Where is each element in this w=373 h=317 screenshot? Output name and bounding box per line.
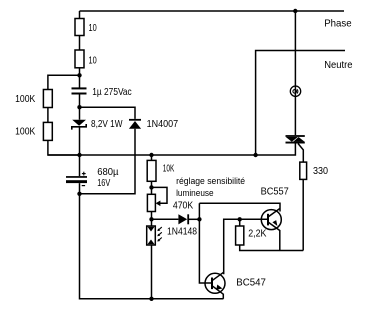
wire 10K to pot bbox=[151, 181, 153, 194]
wire top rail to R1 bbox=[79, 11, 81, 19]
wire between 100K resistors bbox=[47, 108, 49, 123]
node LDR bottom bbox=[149, 297, 153, 301]
wire between 10 resistors bbox=[79, 36, 81, 51]
wiper loop of 470K bbox=[152, 187, 168, 203]
wire 1N4148 cathode to vertical bbox=[189, 218, 199, 220]
svg-text:10K: 10K bbox=[163, 164, 175, 175]
triac gate wire bbox=[298, 144, 303, 163]
wire to 100K branch bbox=[48, 75, 80, 89]
wire zener to rail bbox=[79, 127, 81, 155]
svg-text:100K: 100K bbox=[15, 94, 35, 105]
svg-text:10: 10 bbox=[89, 23, 97, 34]
wire rail to 10K bbox=[151, 155, 153, 160]
wire 100K bottom to rail bbox=[48, 140, 80, 155]
resistor 10 (top) bbox=[75, 19, 84, 36]
node cap bottom / 1N4007 return bbox=[77, 192, 81, 196]
plus sign of 680u bbox=[82, 172, 86, 176]
resistor 10 (second) bbox=[75, 50, 84, 68]
resistor 2,2K bbox=[236, 226, 244, 245]
transistor BC557 bbox=[261, 210, 281, 230]
node B bbox=[77, 105, 81, 109]
svg-text:BC557: BC557 bbox=[261, 186, 289, 197]
svg-text:16V: 16V bbox=[97, 178, 110, 189]
wire 1N4007 bottom to cap-bottom wire bbox=[80, 129, 136, 194]
potentiometer 470K bbox=[147, 194, 155, 211]
BC547 emitter arrow (NPN, pointing out) bbox=[216, 285, 222, 290]
wire rail to 680u cap bbox=[79, 155, 81, 176]
wire 330 bottom to emitter return bbox=[302, 179, 304, 250]
node pot-1N4148-LDR bbox=[149, 217, 153, 221]
svg-text:Neutre: Neutre bbox=[324, 60, 353, 71]
svg-text:100K: 100K bbox=[15, 127, 35, 138]
wire vertical collector-base bus bbox=[199, 203, 211, 283]
node 10K-pot bbox=[149, 185, 153, 189]
capacitor 680u 16V bbox=[66, 176, 87, 183]
wire BC547 collector to BC557 base bbox=[224, 219, 268, 274]
BC547 emitter lead bbox=[222, 294, 224, 299]
node rail-neutre branch bbox=[253, 153, 257, 157]
node 1N4148 cathode bbox=[197, 217, 201, 221]
LDR photoresistor bbox=[147, 226, 156, 245]
wire 680u to bottom rail bbox=[80, 183, 224, 299]
node rail-10K bbox=[149, 153, 153, 157]
wire neutre line bbox=[256, 51, 345, 156]
wire 2,2K top lead bbox=[239, 219, 241, 226]
BC557 emitter arrow (PNP, pointing to base) bbox=[272, 220, 277, 226]
wire pot bottom to 1N4148 node bbox=[151, 212, 153, 227]
diode 1N4007 bbox=[129, 119, 141, 121]
resistor 100K (lower) bbox=[43, 122, 52, 140]
node phase-lamp junction bbox=[293, 9, 297, 13]
lamp top lead bbox=[294, 11, 296, 135]
wire cap to node B bbox=[79, 95, 81, 120]
zener diode 8,2V 1W bbox=[72, 120, 86, 126]
svg-text:10: 10 bbox=[89, 55, 97, 66]
transistor BC547 bbox=[205, 273, 225, 293]
LDR light arrows bbox=[158, 227, 162, 241]
svg-text:lumineuse: lumineuse bbox=[176, 188, 214, 199]
resistor 100K (upper) bbox=[43, 90, 52, 108]
wire main rail bbox=[48, 144, 296, 156]
node rail-zener bbox=[77, 153, 81, 157]
wire top link to BC557 collector bbox=[199, 203, 280, 211]
svg-text:8,2V 1W: 8,2V 1W bbox=[91, 119, 123, 130]
wire R2 bottom to node bbox=[79, 68, 81, 88]
wire 2,2K bottom / emitter return bbox=[240, 245, 304, 251]
wire node to 1N4148 anode bbox=[152, 218, 179, 220]
minus sign of 680u bbox=[82, 185, 85, 187]
wire top phase rail bbox=[80, 10, 345, 12]
wire node B to 1N4007 top bbox=[80, 107, 136, 119]
wiper arrowhead bbox=[156, 201, 161, 207]
wire LDR to bottom rail bbox=[151, 245, 153, 299]
lamp bbox=[290, 86, 300, 96]
svg-text:2,2K: 2,2K bbox=[248, 229, 266, 240]
triac bbox=[286, 135, 305, 143]
svg-text:470K: 470K bbox=[173, 200, 193, 211]
svg-text:1µ 275Vac: 1µ 275Vac bbox=[92, 87, 131, 98]
capacitor C1 1u 275Vac bbox=[72, 87, 87, 94]
svg-text:330: 330 bbox=[313, 166, 328, 177]
resistor 330 bbox=[300, 162, 307, 179]
svg-text:680µ: 680µ bbox=[97, 167, 118, 178]
resistor 10K bbox=[147, 160, 156, 181]
svg-text:BC547: BC547 bbox=[236, 278, 266, 289]
svg-text:Phase: Phase bbox=[324, 18, 352, 29]
svg-text:1N4148: 1N4148 bbox=[167, 226, 197, 237]
node 2,2K top bbox=[238, 217, 242, 221]
diode 1N4148 bbox=[178, 214, 187, 224]
svg-text:1N4007: 1N4007 bbox=[147, 119, 179, 130]
LDR inner arrows bbox=[148, 227, 155, 232]
svg-text:réglage sensibilité: réglage sensibilité bbox=[176, 176, 245, 187]
node A bbox=[77, 73, 81, 77]
BC557 emitter lead bbox=[279, 230, 281, 251]
